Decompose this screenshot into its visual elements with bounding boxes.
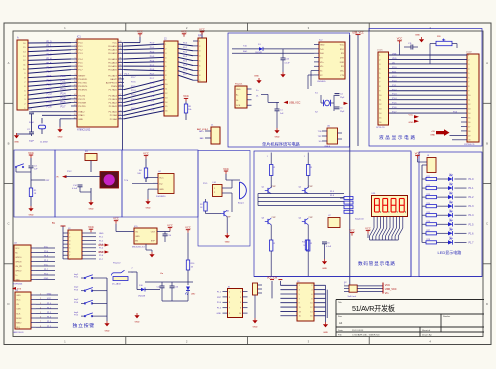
svg-text:P1.6: P1.6 — [47, 66, 53, 69]
svg-text:D: D — [7, 302, 9, 306]
svg-text:USB_VCC: USB_VCC — [385, 288, 397, 291]
svg-text:39: 39 — [119, 45, 121, 47]
svg-text:P3.5T1: P3.5T1 — [78, 99, 86, 101]
svg-text:19: 19 — [74, 114, 76, 116]
svg-text:LCD1: LCD1 — [377, 50, 383, 52]
svg-text:12: 12 — [74, 85, 76, 87]
svg-text:P2.7A15: P2.7A15 — [109, 89, 118, 92]
svg-text:0.1uF: 0.1uF — [326, 246, 332, 248]
svg-text:VCC: VCC — [47, 298, 52, 300]
svg-text:USB_VCC: USB_VCC — [352, 31, 364, 34]
svg-text:VCC: VCC — [16, 300, 21, 302]
svg-text:VCC: VCC — [185, 226, 191, 230]
svg-text:12: 12 — [310, 307, 312, 309]
svg-text:TCrl: TCrl — [124, 179, 129, 182]
svg-text:1: 1 — [344, 283, 345, 285]
svg-text:单片机程序烧写电路: 单片机程序烧写电路 — [262, 140, 301, 147]
svg-text:VCC: VCC — [365, 226, 371, 230]
svg-text:GND: GND — [99, 233, 104, 235]
svg-text:VCC: VCC — [409, 114, 414, 116]
svg-text:17: 17 — [74, 105, 76, 107]
svg-text:P0.1AD1: P0.1AD1 — [108, 49, 117, 52]
svg-text:P1.1: P1.1 — [47, 45, 53, 48]
svg-text:TxD: TxD — [243, 45, 247, 47]
svg-text:Tx: Tx — [15, 275, 17, 277]
svg-text:VCC: VCC — [181, 30, 187, 34]
svg-text:P1.0: P1.0 — [469, 178, 475, 181]
svg-text:14: 14 — [74, 94, 76, 96]
svg-text:P1.6: P1.6 — [469, 232, 475, 235]
svg-text:CH340G: CH340G — [317, 81, 326, 83]
svg-text:R28: R28 — [427, 239, 430, 241]
svg-text:7: 7 — [75, 65, 76, 67]
svg-text:DQ: DQ — [159, 183, 163, 185]
svg-text:15: 15 — [74, 97, 76, 99]
svg-text:R1.9: R1.9 — [330, 191, 334, 193]
svg-text:USB-B: USB-B — [324, 146, 331, 148]
svg-text:GND: GND — [89, 209, 94, 211]
svg-text:P1.5: P1.5 — [392, 103, 397, 105]
svg-text:P0.4AD4: P0.4AD4 — [108, 61, 117, 64]
svg-text:P3.4: P3.4 — [61, 92, 67, 95]
svg-text:独立按键: 独立按键 — [73, 322, 95, 329]
svg-text:P0.3AD3: P0.3AD3 — [108, 58, 117, 61]
svg-text:P3.1TXD: P3.1TXD — [78, 82, 87, 84]
svg-text:ALE/PROG: ALE/PROG — [106, 81, 117, 84]
svg-text:D7: D7 — [449, 219, 451, 221]
svg-text:P2.3: P2.3 — [131, 95, 136, 97]
svg-text:GND: GND — [409, 122, 414, 124]
svg-text:GND: GND — [98, 251, 104, 254]
svg-text:7: 7 — [40, 321, 41, 323]
svg-text:51/AVR开发板: 51/AVR开发板 — [352, 304, 395, 313]
svg-text:9: 9 — [229, 313, 230, 315]
svg-text:1: 1 — [299, 285, 300, 287]
svg-text:P3.4: P3.4 — [47, 97, 53, 100]
svg-text:P1.5: P1.5 — [47, 62, 53, 65]
svg-text:P1.7: P1.7 — [47, 71, 53, 74]
svg-text:8: 8 — [240, 308, 241, 310]
svg-text:BYP: BYP — [151, 241, 156, 243]
svg-text:5: 5 — [229, 302, 230, 304]
svg-text:26: 26 — [119, 97, 121, 99]
svg-text:R22: R22 — [427, 185, 430, 187]
svg-text:10: 10 — [310, 303, 312, 305]
svg-text:Number: Number — [443, 316, 450, 318]
svg-text:GND: GND — [254, 76, 259, 78]
svg-text:D5: D5 — [449, 201, 451, 203]
svg-text:13: 13 — [74, 88, 76, 90]
svg-text:0.1uF: 0.1uF — [285, 63, 291, 65]
svg-text:R24: R24 — [427, 203, 430, 205]
svg-text:24: 24 — [119, 105, 121, 107]
svg-text:R1I: R1I — [341, 53, 345, 55]
svg-text:P3.4T0: P3.4T0 — [78, 95, 86, 97]
svg-text:P1.2: P1.2 — [469, 196, 475, 199]
svg-text:29: 29 — [119, 85, 121, 87]
svg-text:D3: D3 — [449, 183, 451, 185]
svg-text:P1.5: P1.5 — [469, 223, 475, 226]
svg-text:33: 33 — [119, 68, 121, 70]
svg-text:P0.3: P0.3 — [150, 56, 155, 58]
svg-text:GND: GND — [253, 327, 258, 329]
svg-text:P3.0RXD: P3.0RXD — [78, 79, 87, 81]
svg-text:Sheet of: Sheet of — [422, 329, 431, 332]
svg-text:C:\51\AVR.Ddb - 51AVR.Sch: C:\51\AVR.Ddb - 51AVR.Sch — [352, 334, 381, 337]
svg-text:P1.3: P1.3 — [47, 53, 53, 56]
svg-text:Beep1: Beep1 — [238, 202, 245, 204]
svg-text:PNP: PNP — [309, 217, 314, 219]
svg-text:P1.4: P1.4 — [392, 98, 397, 100]
svg-text:6: 6 — [240, 302, 241, 304]
svg-text:P0.5AD5: P0.5AD5 — [108, 65, 117, 68]
svg-text:P3.2INT0: P3.2INT0 — [78, 86, 88, 88]
svg-text:GND: GND — [15, 279, 20, 281]
svg-text:P1.1: P1.1 — [469, 187, 475, 190]
svg-text:R26: R26 — [427, 221, 430, 223]
svg-text:P2.4: P2.4 — [150, 91, 155, 93]
svg-text:10: 10 — [74, 77, 76, 79]
svg-text:VCC: VCC — [199, 28, 205, 32]
svg-text:P2.1: P2.1 — [392, 71, 397, 73]
svg-text:MIC5205-3.3: MIC5205-3.3 — [132, 247, 145, 249]
svg-text:18: 18 — [74, 110, 76, 112]
svg-text:21: 21 — [119, 117, 121, 119]
svg-text:R1.8: R1.8 — [330, 195, 334, 197]
svg-text:P0.2: P0.2 — [150, 51, 155, 53]
svg-text:30pF: 30pF — [29, 141, 35, 143]
svg-text:128*64LCD: 128*64LCD — [464, 144, 475, 146]
svg-text:PNP: PNP — [272, 186, 277, 188]
svg-text:DCE: DCE — [236, 105, 241, 107]
svg-text:NRF24L01: NRF24L01 — [13, 332, 24, 334]
svg-text:SG: SG — [319, 141, 322, 143]
svg-text:P3.1: P3.1 — [61, 79, 67, 82]
svg-text:VCC: VCC — [159, 178, 164, 180]
svg-text:2: 2 — [40, 298, 41, 300]
svg-text:R23: R23 — [427, 194, 430, 196]
svg-text:DS18B20: DS18B20 — [156, 196, 166, 198]
svg-text:IRQ: IRQ — [16, 327, 20, 329]
svg-text:D4: D4 — [449, 192, 451, 194]
svg-text:7: 7 — [69, 255, 70, 257]
svg-text:28: 28 — [119, 88, 121, 90]
svg-text:P3.7: P3.7 — [61, 105, 67, 108]
svg-text:27: 27 — [119, 94, 121, 96]
svg-text:GND: GND — [29, 215, 34, 217]
svg-text:Date:: Date: — [338, 329, 344, 332]
svg-text:GND: GND — [323, 332, 328, 334]
svg-text:16: 16 — [310, 316, 312, 318]
svg-text:4: 4 — [75, 52, 76, 54]
svg-text:RST: RST — [47, 75, 52, 78]
svg-text:VCC: VCC — [112, 43, 117, 45]
svg-text:4: 4 — [40, 307, 41, 309]
svg-text:GND: GND — [135, 322, 140, 324]
svg-text:2: 2 — [311, 285, 312, 287]
svg-text:GND: GND — [217, 313, 222, 315]
svg-text:IC1: IC1 — [77, 36, 81, 39]
svg-text:1N4148: 1N4148 — [138, 296, 146, 298]
svg-text:P3.6WR: P3.6WR — [78, 102, 86, 104]
svg-text:VCC: VCC — [44, 247, 49, 249]
svg-text:P3.2: P3.2 — [47, 88, 53, 91]
svg-text:C: C — [486, 222, 488, 226]
svg-text:4: 4 — [240, 297, 241, 299]
svg-text:P2.6: P2.6 — [131, 81, 136, 83]
svg-text:MOSI: MOSI — [16, 318, 22, 320]
svg-text:B: B — [8, 142, 10, 146]
svg-text:5: 5 — [69, 248, 70, 250]
svg-text:P0.4: P0.4 — [150, 60, 155, 62]
svg-text:23: 23 — [119, 110, 121, 112]
svg-text:P2.4A12: P2.4A12 — [109, 101, 118, 104]
svg-text:P2.1: P2.1 — [150, 105, 155, 107]
svg-text:D: D — [486, 302, 488, 306]
svg-text:2: 2 — [240, 291, 241, 293]
svg-text:1: 1 — [75, 41, 76, 43]
svg-text:A4: A4 — [339, 321, 343, 325]
svg-text:1: 1 — [132, 272, 133, 274]
svg-text:P1.7: P1.7 — [469, 241, 475, 244]
svg-text:1: 1 — [40, 294, 41, 296]
svg-text:36: 36 — [119, 58, 121, 60]
svg-text:Power1: Power1 — [235, 83, 243, 86]
svg-text:P2.7: P2.7 — [125, 74, 130, 76]
svg-text:GND: GND — [159, 189, 164, 191]
svg-text:4: 4 — [69, 244, 70, 246]
svg-text:8: 8 — [69, 259, 70, 261]
svg-text:GND: GND — [58, 137, 63, 139]
svg-text:VCC: VCC — [113, 217, 119, 221]
svg-text:RP1: RP1 — [198, 35, 203, 38]
svg-text:5V: 5V — [52, 222, 55, 225]
svg-text:32: 32 — [119, 74, 121, 76]
svg-text:VCC: VCC — [44, 265, 49, 267]
svg-text:Segment: Segment — [355, 218, 364, 221]
svg-text:VCC: VCC — [340, 44, 345, 46]
svg-text:4: 4 — [311, 290, 312, 292]
svg-text:P2.0A8: P2.0A8 — [110, 118, 118, 121]
svg-text:GND: GND — [225, 242, 230, 244]
svg-text:P3.2: P3.2 — [67, 171, 72, 173]
svg-text:P2.2: P2.2 — [131, 99, 136, 101]
svg-text:22: 22 — [119, 114, 121, 116]
svg-text:P0.7AD7: P0.7AD7 — [108, 74, 117, 77]
svg-text:P2.1: P2.1 — [131, 103, 136, 105]
svg-text:VCC: VCC — [385, 284, 390, 287]
svg-text:GND: GND — [78, 119, 83, 121]
svg-text:2: 2 — [132, 267, 133, 269]
svg-text:GND: GND — [236, 89, 241, 91]
svg-text:GND: GND — [105, 330, 110, 332]
svg-text:P3.2: P3.2 — [61, 84, 67, 87]
svg-text:D8: D8 — [449, 228, 451, 230]
svg-text:9: 9 — [75, 74, 76, 76]
svg-text:P0.6: P0.6 — [150, 69, 155, 71]
svg-text:9: 9 — [299, 303, 300, 305]
svg-text:SCK: SCK — [16, 313, 21, 315]
svg-text:6: 6 — [311, 294, 312, 296]
svg-text:P2.3A11: P2.3A11 — [109, 105, 118, 108]
svg-text:P2.3: P2.3 — [150, 96, 155, 98]
svg-text:VCC: VCC — [223, 167, 229, 171]
svg-text:P2.0: P2.0 — [392, 67, 397, 69]
svg-text:A: A — [8, 61, 10, 65]
svg-text:GND: GND — [322, 268, 327, 270]
svg-text:+5V: +5V — [431, 131, 435, 133]
svg-text:R1O: R1O — [340, 49, 345, 51]
svg-text:5: 5 — [75, 58, 76, 60]
svg-text:P1.4: P1.4 — [469, 214, 475, 217]
svg-text:P2.5: P2.5 — [131, 86, 136, 88]
svg-text:R27: R27 — [427, 230, 430, 232]
svg-text:AT89C51/52: AT89C51/52 — [77, 129, 91, 132]
svg-text:CSN: CSN — [16, 309, 21, 311]
svg-text:P3.1: P3.1 — [47, 84, 53, 87]
svg-text:P2.6A14: P2.6A14 — [109, 94, 118, 97]
svg-text:P1.2: P1.2 — [47, 49, 53, 52]
svg-text:P0.1: P0.1 — [150, 47, 155, 49]
svg-text:P0.0AD0: P0.0AD0 — [108, 45, 117, 48]
svg-text:1: 1 — [267, 156, 268, 158]
svg-text:31: 31 — [119, 77, 121, 79]
svg-text:P3.5: P3.5 — [47, 101, 53, 104]
svg-text:P0.0: P0.0 — [150, 43, 155, 45]
svg-text:P1.3: P1.3 — [469, 205, 475, 208]
svg-text:8: 8 — [75, 68, 76, 70]
svg-text:D9: D9 — [449, 237, 451, 239]
svg-text:P2.1A9: P2.1A9 — [110, 114, 118, 117]
svg-text:1: 1 — [229, 291, 230, 293]
svg-text:P2.0: P2.0 — [150, 109, 155, 111]
svg-text:25: 25 — [119, 101, 121, 103]
svg-text:P0.7: P0.7 — [150, 74, 155, 76]
svg-text:PNP: PNP — [309, 186, 314, 188]
svg-text:11.0592: 11.0592 — [40, 141, 49, 143]
svg-text:GND: GND — [430, 135, 435, 137]
svg-text:GND: GND — [135, 236, 140, 238]
svg-text:VCC: VCC — [167, 223, 173, 227]
svg-text:P2.6: P2.6 — [150, 83, 155, 85]
svg-text:VCC: VCC — [137, 30, 143, 34]
svg-text:CH_PD: CH_PD — [15, 266, 22, 268]
svg-text:P1.3: P1.3 — [392, 94, 397, 96]
svg-text:MISO: MISO — [16, 323, 22, 325]
svg-text:TxD: TxD — [320, 49, 324, 51]
svg-text:P3.7RD: P3.7RD — [78, 106, 86, 108]
svg-text:P1.0: P1.0 — [392, 80, 397, 82]
svg-text:P3.3INT1: P3.3INT1 — [78, 90, 88, 92]
svg-text:B: B — [486, 142, 488, 146]
svg-text:LED: LED — [191, 293, 196, 295]
svg-text:P2.5: P2.5 — [150, 87, 155, 89]
svg-text:数码管显示电路: 数码管显示电路 — [358, 260, 396, 267]
svg-text:C: C — [7, 222, 9, 226]
svg-text:P2.7: P2.7 — [131, 77, 136, 79]
svg-text:37: 37 — [119, 52, 121, 54]
svg-text:Power2: Power2 — [113, 261, 121, 264]
svg-text:XTAL1: XTAL1 — [78, 114, 85, 117]
svg-text:GPIO0: GPIO0 — [15, 257, 22, 259]
svg-text:34: 34 — [119, 65, 121, 67]
svg-text:CTS: CTS — [340, 75, 345, 77]
svg-text:1: 1 — [304, 156, 305, 158]
svg-text:PSEN: PSEN — [111, 86, 117, 88]
svg-text:VCC: VCC — [15, 248, 20, 250]
svg-text:2: 2 — [75, 45, 76, 47]
svg-text:GPIO8: GPIO8 — [15, 261, 22, 263]
svg-text:6: 6 — [75, 61, 76, 63]
svg-text:File:: File: — [338, 335, 343, 337]
svg-text:VCC: VCC — [397, 37, 403, 41]
svg-text:3: 3 — [69, 240, 70, 242]
svg-text:RxD: RxD — [243, 51, 248, 53]
svg-text:EA/VP: EA/VP — [110, 78, 117, 81]
svg-text:RxD: RxD — [320, 53, 324, 55]
svg-text:Self-Lock: Self-Lock — [348, 296, 358, 298]
svg-text:30: 30 — [119, 81, 121, 83]
svg-text:R21: R21 — [427, 176, 430, 178]
svg-text:P1.1: P1.1 — [392, 85, 397, 87]
svg-text:1: 1 — [69, 233, 70, 235]
svg-text:3: 3 — [75, 48, 76, 50]
svg-text:P2.2: P2.2 — [150, 100, 155, 102]
svg-text:RESET: RESET — [78, 75, 86, 77]
svg-text:DC-JACK: DC-JACK — [112, 282, 122, 285]
svg-text:GND: GND — [320, 44, 325, 46]
svg-text:P1.0: P1.0 — [47, 40, 53, 43]
svg-text:35: 35 — [119, 61, 121, 63]
svg-text:Rx: Rx — [15, 252, 17, 254]
svg-text:P3.5: P3.5 — [61, 97, 67, 100]
svg-text:DTR: DTR — [340, 57, 345, 59]
svg-text:VSS: VSS — [392, 54, 397, 56]
svg-text:Drawn By:: Drawn By: — [422, 334, 432, 337]
svg-text:5: 5 — [40, 312, 41, 314]
svg-text:USB_VCC: USB_VCC — [289, 101, 301, 104]
svg-text:40: 40 — [119, 41, 121, 43]
svg-text:GND: GND — [16, 295, 21, 297]
svg-text:BAT-: BAT- — [200, 137, 205, 140]
svg-text:GND: GND — [14, 142, 19, 144]
svg-text:A: A — [486, 61, 488, 65]
svg-text:VCC: VCC — [143, 151, 149, 155]
svg-text:GND: GND — [47, 294, 52, 296]
svg-text:11: 11 — [74, 81, 76, 83]
svg-text:3: 3 — [229, 297, 230, 299]
svg-text:6: 6 — [40, 317, 41, 319]
svg-text:LED显示电路: LED显示电路 — [438, 249, 462, 255]
svg-text:P3.0: P3.0 — [47, 79, 53, 82]
svg-text:TXP: TXP — [318, 136, 323, 138]
svg-text:P0.5: P0.5 — [150, 65, 155, 67]
svg-text:P3.3: P3.3 — [61, 88, 67, 91]
svg-text:D6: D6 — [449, 210, 451, 212]
svg-text:GND: GND — [146, 208, 151, 210]
svg-text:VCC: VCC — [183, 94, 189, 98]
svg-text:0.1uF: 0.1uF — [72, 188, 78, 190]
svg-text:P3.0: P3.0 — [61, 75, 67, 78]
svg-text:DSR: DSR — [340, 62, 345, 64]
svg-text:GND: GND — [98, 244, 104, 247]
svg-text:29-12-2013: 29-12-2013 — [352, 330, 364, 332]
svg-text:8: 8 — [311, 298, 312, 300]
svg-text:P2.2A10: P2.2A10 — [109, 111, 118, 114]
svg-text:液晶显示电路: 液晶显示电路 — [379, 134, 417, 141]
svg-text:P2.7: P2.7 — [150, 78, 155, 80]
svg-text:GPIO2: GPIO2 — [15, 270, 22, 272]
